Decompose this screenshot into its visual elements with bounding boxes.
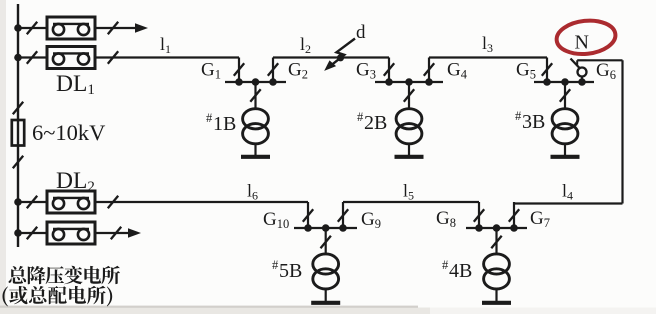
circuit breaker (top spare feeder) xyxy=(47,17,95,39)
svg-text:#: # xyxy=(206,111,213,125)
node bus/DL2 xyxy=(14,198,22,206)
isolator mark DL1 right xyxy=(108,51,118,63)
node bus/row1 xyxy=(14,24,22,32)
switch G5 blade xyxy=(542,63,552,75)
svg-text:#: # xyxy=(442,258,449,272)
wire riser G7 xyxy=(513,202,515,228)
wire drop G1 xyxy=(238,58,240,83)
wire bus to breaker DL1 xyxy=(18,56,47,58)
isolator mark DL1 left xyxy=(27,51,37,63)
node G9 xyxy=(339,224,347,232)
node 4B center xyxy=(493,224,501,232)
node G7 xyxy=(510,224,518,232)
switch G10 blade xyxy=(303,209,313,221)
isolator mark row1 left xyxy=(27,22,37,34)
node 2B center xyxy=(405,78,413,86)
svg-text:6~10kV: 6~10kV xyxy=(32,120,105,145)
wire to transformer 1B xyxy=(254,82,256,109)
isolator mark row4 left xyxy=(27,227,37,239)
node G2 xyxy=(269,78,277,86)
svg-text:#: # xyxy=(272,258,279,272)
fault lightning arrow at d xyxy=(324,39,355,71)
svg-text:#: # xyxy=(515,109,522,123)
node 1B center xyxy=(252,78,260,86)
wire line l4 xyxy=(514,202,623,204)
transformer 3B switch blade xyxy=(560,89,570,101)
node G8 xyxy=(475,224,483,232)
wire 2B to LV bar xyxy=(408,144,410,155)
node G6 xyxy=(578,78,586,86)
wire to transformer 2B xyxy=(408,82,410,109)
outgoing feeder arrow row4 xyxy=(128,228,141,238)
transformer 2B switch blade xyxy=(404,89,414,101)
wire line l1 xyxy=(95,56,239,58)
transformer #4B xyxy=(484,254,510,289)
wire tap bus 5B xyxy=(294,227,357,229)
svg-text:3B: 3B xyxy=(522,111,545,133)
LV bar under #1B xyxy=(241,155,270,159)
switch G4 blade xyxy=(424,63,434,75)
svg-text:1B: 1B xyxy=(213,113,236,135)
wire tap bus 3B xyxy=(534,81,594,83)
LV bar under #4B xyxy=(482,301,511,305)
switch G1 blade xyxy=(234,63,244,75)
wire to transformer 3B xyxy=(564,82,566,109)
svg-text:2B: 2B xyxy=(364,112,387,134)
disconnect mark above fuse xyxy=(13,102,23,114)
transformer #3B xyxy=(552,109,578,144)
wire line l6 xyxy=(95,201,308,203)
wire 1B to LV bar xyxy=(254,144,256,155)
red highlight ellipse around N xyxy=(555,18,617,57)
wire G6 to right riser xyxy=(587,59,623,61)
wire tap bus 4B xyxy=(466,227,527,229)
open switch G6 xyxy=(571,59,587,83)
wire bus to breaker DL2 xyxy=(18,201,47,203)
wire drop G5 xyxy=(546,58,548,83)
svg-text:d: d xyxy=(356,22,366,43)
wire 5B to LV bar xyxy=(325,289,327,301)
svg-text:5B: 5B xyxy=(279,260,302,282)
caption: (or main distribution) xyxy=(3,286,113,307)
isolator mark row1 right xyxy=(108,22,118,34)
wire tap bus 1B xyxy=(225,81,286,83)
transformer 4B switch blade xyxy=(491,236,501,248)
node d fault point xyxy=(337,54,344,61)
wire riser G9 xyxy=(342,202,344,228)
wire 3B to LV bar xyxy=(564,144,566,155)
isolator mark row4 right xyxy=(111,227,121,239)
wire line l3 xyxy=(429,56,547,58)
circuit breaker DL1 xyxy=(47,47,95,69)
node 3B center xyxy=(561,78,569,86)
wire bus to breaker row1 xyxy=(18,27,47,29)
node bus/DL1 xyxy=(14,54,22,62)
node G1 xyxy=(235,78,243,86)
node G3 xyxy=(385,78,393,86)
transformer #2B xyxy=(396,109,422,144)
wire to transformer 4B xyxy=(495,228,497,254)
transformer 5B switch blade xyxy=(321,236,331,248)
LV bar under #3B xyxy=(551,155,580,159)
wire drop G10 xyxy=(307,202,309,228)
node G10 xyxy=(304,224,312,232)
wire 4B to LV bar xyxy=(495,289,497,301)
LV bar under #2B xyxy=(395,155,424,159)
transformer 1B switch blade xyxy=(250,89,260,101)
switch G9 blade xyxy=(338,209,348,221)
node 5B center xyxy=(322,224,330,232)
circuit breaker DL2 xyxy=(47,191,95,213)
wire line l5 xyxy=(343,201,479,203)
switch G2 blade xyxy=(268,63,278,75)
circuit breaker (bottom spare feeder) xyxy=(47,222,95,244)
wire drop G8 xyxy=(478,202,480,228)
wire tap bus 2B xyxy=(375,81,443,83)
wire row4 to arrow xyxy=(95,232,129,234)
isolator mark DL2 right xyxy=(108,196,118,208)
disconnect mark below fuse xyxy=(13,156,23,168)
switch G3 blade xyxy=(384,63,394,75)
transformer #1B xyxy=(243,109,269,144)
wire bus to breaker row4 xyxy=(18,232,47,234)
switch G7 blade xyxy=(509,209,519,221)
svg-text:#: # xyxy=(357,110,364,124)
node G5 xyxy=(543,78,551,86)
wire left 6-10kV bus xyxy=(17,4,19,247)
fuse FU on bus xyxy=(12,120,24,146)
wire riser G2 xyxy=(272,58,274,83)
node G4 xyxy=(425,78,433,86)
wire to transformer 5B xyxy=(325,228,327,254)
wire riser G4 xyxy=(428,58,430,83)
wire line l2 xyxy=(273,56,389,58)
caption: main step-down substation xyxy=(9,266,120,285)
wire right riser xyxy=(621,60,623,203)
wire row1 to arrow xyxy=(95,27,136,29)
svg-text:4B: 4B xyxy=(449,260,472,282)
switch G8 blade xyxy=(474,209,484,221)
isolator mark DL2 left xyxy=(27,196,37,208)
svg-text:N: N xyxy=(575,32,589,54)
transformer #5B xyxy=(313,254,339,289)
wire drop G3 xyxy=(388,58,390,83)
LV bar under #5B xyxy=(311,301,340,305)
node bus/row4 xyxy=(14,229,22,237)
outgoing feeder arrow row1 xyxy=(135,23,148,33)
